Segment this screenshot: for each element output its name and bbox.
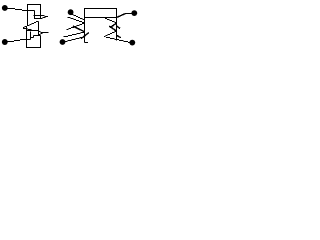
left winding leg xyxy=(84,18,86,43)
wire turn h4 xyxy=(31,37,34,39)
wire turn h5 xyxy=(20,39,31,41)
left winding V1 lower arm (stairs) xyxy=(67,24,85,30)
wire leg to dot F right part (stairs) xyxy=(115,40,131,43)
wire lead from dot A xyxy=(7,9,28,11)
wire vertical v33 xyxy=(33,36,35,38)
terminal dot F (right, bottom-right) xyxy=(129,40,135,46)
wire turn h2 xyxy=(27,30,39,32)
left winding wrap stub bottom xyxy=(85,42,89,44)
right winding V1 upper arm (stairs) xyxy=(105,19,117,23)
wire crossing diagonal d1 (stairs) xyxy=(23,22,39,28)
wire crossing diagonal d2 (stairs) xyxy=(23,29,32,30)
left winding wrap crossing xyxy=(81,33,89,39)
right winding V2 lower arm (stairs) xyxy=(104,32,116,37)
wire core corner to dot E steep part xyxy=(117,14,126,18)
terminal dot E (right, top-right) xyxy=(131,10,137,16)
left winding V2 upper arm xyxy=(73,26,85,32)
twisted pair exit 1 lower arm (stairs) xyxy=(35,18,46,19)
wire dot D to leg (stairs) xyxy=(65,37,85,42)
wire lead from dot B xyxy=(7,41,20,42)
coil L1 left edge lower xyxy=(26,27,28,48)
left winding V2 lower arm (stairs) xyxy=(64,33,85,37)
wire core corner to dot E flat part xyxy=(126,13,133,15)
coil L1 right edge upper xyxy=(40,4,42,19)
terminal dot A (left coil, top) xyxy=(2,5,8,11)
wire turn h3 xyxy=(34,35,41,37)
left winding V1 upper arm (stairs) xyxy=(68,18,85,23)
right winding V2 upper arm xyxy=(109,26,116,31)
terminal dot B (left coil, bottom) xyxy=(2,39,8,45)
right winding wrap stub 2 xyxy=(117,35,121,37)
twisted pair exit 1 vertex and tail xyxy=(45,16,48,18)
coil L1 right edge lower xyxy=(40,36,42,49)
wire vertical v38 xyxy=(38,21,40,35)
twisted pair exit 1 upper arm (stairs) xyxy=(34,15,45,17)
terminal dot C (right, top-left) xyxy=(68,9,74,15)
right winding wrap stub 1 xyxy=(117,26,121,28)
twisted pair exit 2 vertex and tail xyxy=(43,32,49,34)
coil L1 left edge upper xyxy=(27,4,29,25)
twisted pair exit 2 upper arm (stairs) xyxy=(39,32,43,33)
right winding leg xyxy=(116,18,118,41)
transformer core T1 xyxy=(85,9,117,18)
wire dot C to leg (stairs) xyxy=(71,15,85,20)
wire turn h1 xyxy=(28,11,35,19)
wire vertical v30 xyxy=(30,32,32,40)
twisted pair exit 2 lower arm (stairs) xyxy=(39,34,43,35)
coil L1 bottom edge xyxy=(26,47,41,49)
right winding V1 lower arm xyxy=(110,23,117,28)
wire leg to dot F left part (stairs) xyxy=(106,38,115,39)
coil L1 top edge xyxy=(27,4,41,6)
terminal dot D (right, bottom-left) xyxy=(60,39,66,45)
